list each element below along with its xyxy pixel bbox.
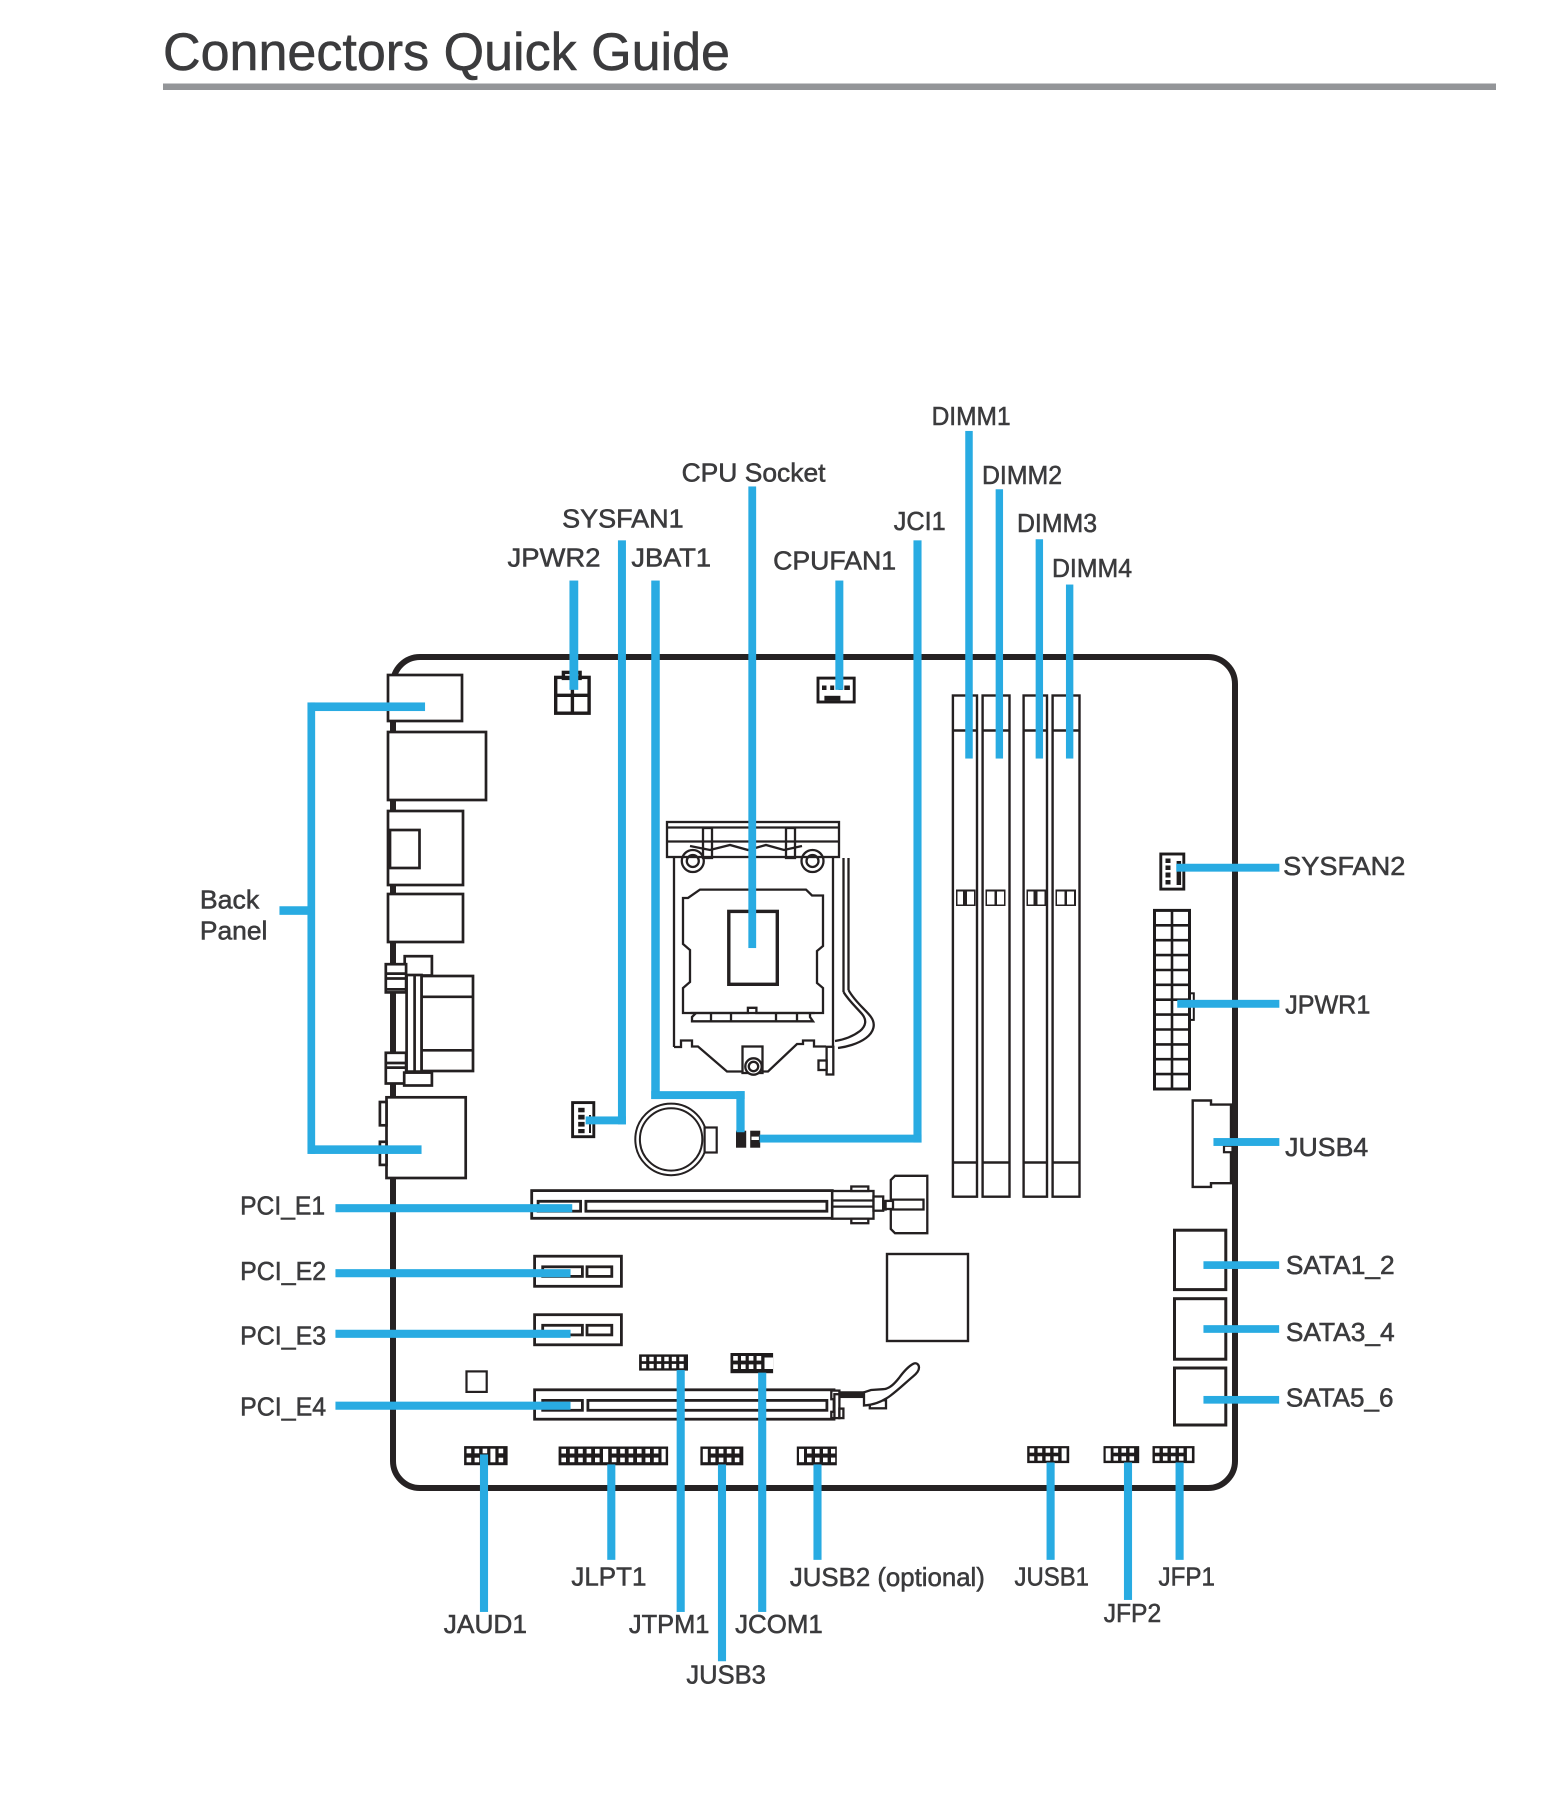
svg-text:Panel: Panel — [200, 916, 268, 946]
svg-text:SYSFAN2: SYSFAN2 — [1283, 851, 1405, 881]
svg-text:JCI1: JCI1 — [894, 506, 946, 536]
svg-text:DIMM2: DIMM2 — [982, 460, 1062, 490]
svg-text:JAUD1: JAUD1 — [444, 1609, 527, 1639]
svg-text:PCI_E2: PCI_E2 — [240, 1256, 326, 1286]
svg-text:Connectors Quick Guide: Connectors Quick Guide — [163, 23, 730, 82]
svg-text:CPUFAN1: CPUFAN1 — [773, 545, 896, 575]
svg-text:JUSB2 (optional): JUSB2 (optional) — [790, 1562, 985, 1592]
svg-text:PCI_E4: PCI_E4 — [240, 1392, 326, 1422]
svg-text:SATA3_4: SATA3_4 — [1286, 1317, 1395, 1347]
svg-text:SYSFAN1: SYSFAN1 — [562, 503, 684, 533]
svg-text:PCI_E3: PCI_E3 — [240, 1320, 326, 1350]
svg-text:JFP2: JFP2 — [1104, 1598, 1162, 1628]
svg-text:JUSB1: JUSB1 — [1015, 1562, 1090, 1592]
svg-text:SATA5_6: SATA5_6 — [1286, 1382, 1394, 1412]
svg-text:JTPM1: JTPM1 — [629, 1609, 710, 1639]
svg-text:JUSB4: JUSB4 — [1285, 1132, 1368, 1162]
svg-text:JPWR1: JPWR1 — [1285, 989, 1370, 1019]
svg-text:CPU Socket: CPU Socket — [682, 458, 827, 488]
svg-text:Back: Back — [200, 885, 260, 915]
svg-text:JFP1: JFP1 — [1159, 1562, 1215, 1592]
svg-text:JPWR2: JPWR2 — [508, 543, 601, 573]
svg-text:DIMM3: DIMM3 — [1017, 508, 1097, 538]
svg-text:JLPT1: JLPT1 — [571, 1562, 646, 1592]
svg-text:JUSB3: JUSB3 — [686, 1660, 765, 1690]
svg-text:JCOM1: JCOM1 — [735, 1609, 823, 1639]
svg-text:DIMM4: DIMM4 — [1052, 553, 1132, 583]
svg-text:JBAT1: JBAT1 — [631, 543, 711, 573]
svg-text:PCI_E1: PCI_E1 — [240, 1191, 325, 1221]
svg-text:DIMM1: DIMM1 — [932, 401, 1011, 431]
svg-text:SATA1_2: SATA1_2 — [1286, 1250, 1395, 1280]
